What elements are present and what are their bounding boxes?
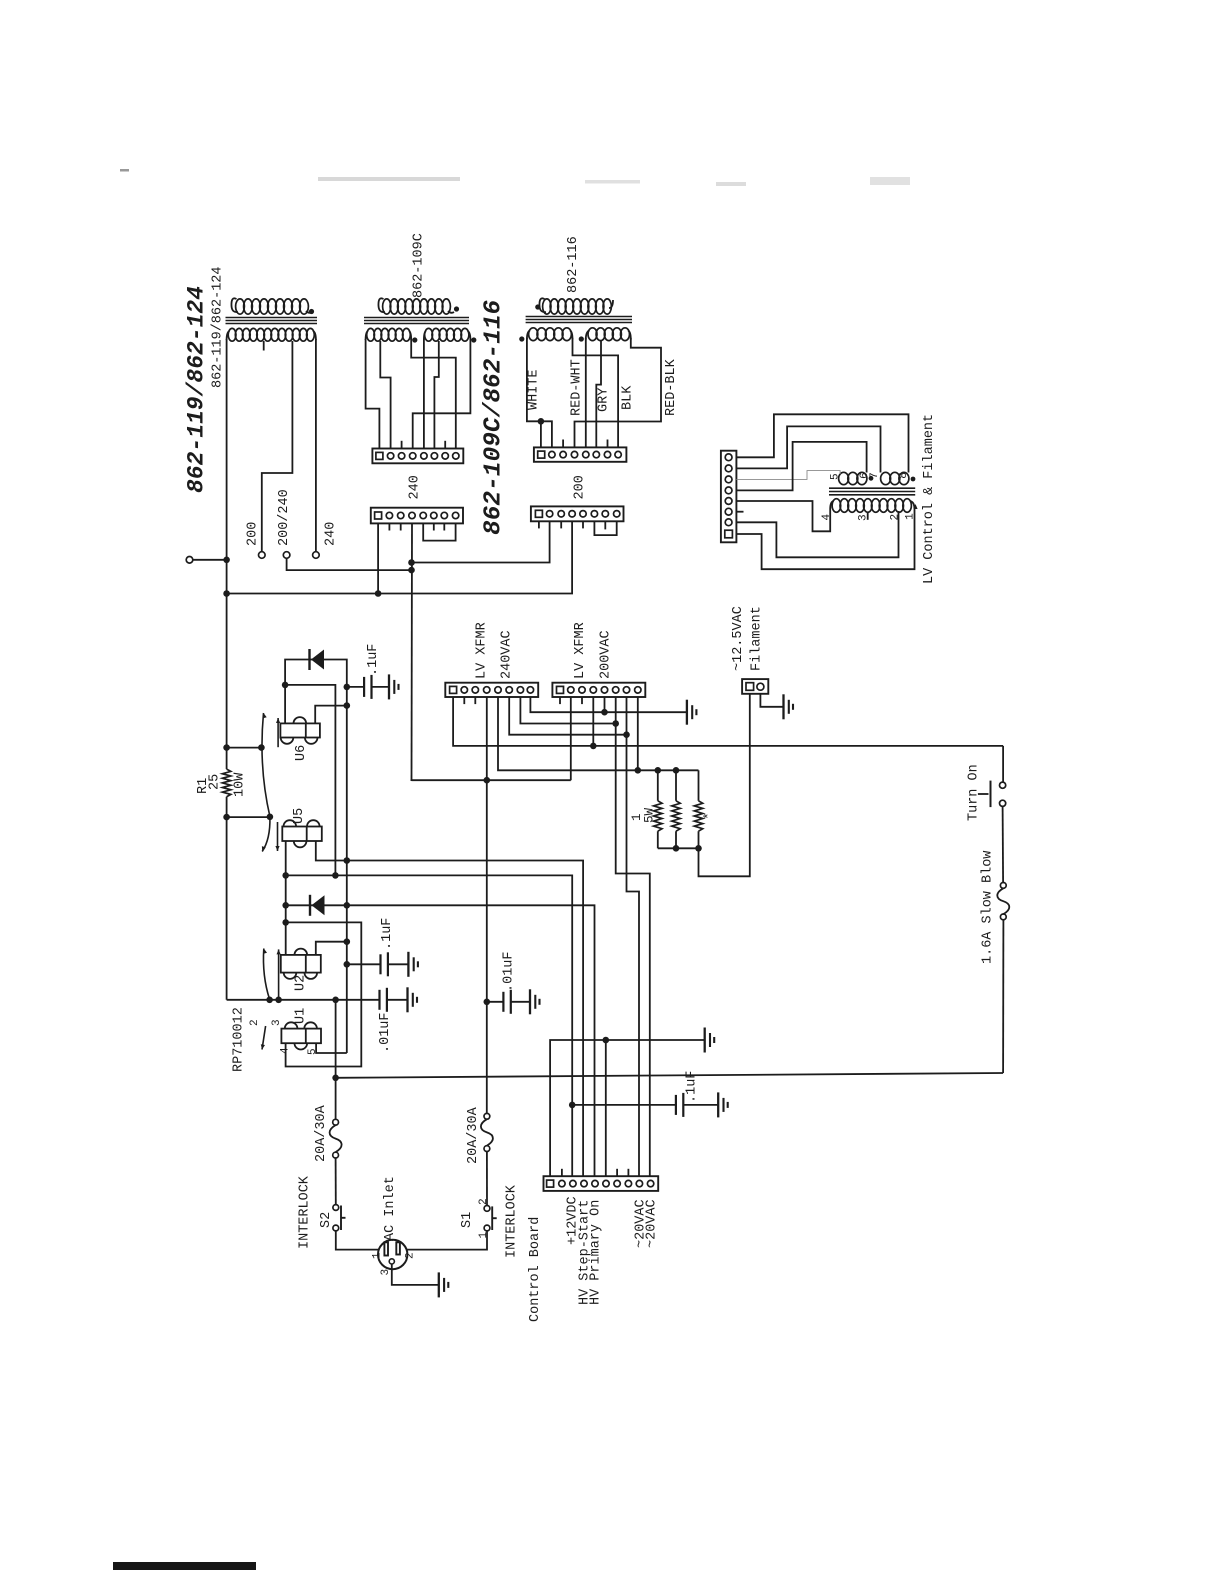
wire 200VAC pin8 to row F xyxy=(637,697,639,770)
240VAC stub pin2 xyxy=(463,697,465,704)
junction rowQ/bypass xyxy=(332,872,339,879)
row .01uF U1 xyxy=(227,999,380,1001)
svg-text:4: 4 xyxy=(821,514,833,521)
wire S2 chain vertical xyxy=(335,1000,337,1122)
wire LVctl conn pin1 to coilB right xyxy=(736,414,908,472)
junction left rail row594 xyxy=(223,590,230,597)
wire inlet pin3 to ground xyxy=(392,1264,439,1285)
svg-text:2: 2 xyxy=(249,1019,261,1026)
wire S1 to fuse F1 xyxy=(486,1152,488,1206)
svg-text:Filament: Filament xyxy=(749,606,764,671)
J3B stub pin5 xyxy=(582,521,584,528)
svg-text:U2: U2 xyxy=(293,975,308,991)
transformer T2 secondary coil xyxy=(378,298,385,312)
ground filament xyxy=(782,694,784,719)
LV ctl coil A dot xyxy=(869,476,874,481)
wire 200VAC pin4 xyxy=(592,697,594,746)
junction U6-left/row685 xyxy=(282,682,289,689)
wire filament pin2 to ground xyxy=(760,694,783,707)
ground AC inlet xyxy=(438,1272,440,1297)
svg-text:RED-WHT: RED-WHT xyxy=(569,359,584,416)
svg-text:.01uF: .01uF xyxy=(378,1012,393,1053)
U1 contact pointer xyxy=(278,949,280,999)
svg-text:20A/30A: 20A/30A xyxy=(314,1104,329,1162)
junction row734/200VAC pin7 xyxy=(623,731,630,738)
T3 connector stub pin7 xyxy=(607,440,609,448)
LVctl conn pin6 stub xyxy=(736,511,743,513)
wire left rail (559.8-747.6) xyxy=(226,560,228,748)
row D2 to control board pin5 xyxy=(286,905,595,1176)
LV ctl secondary coil A (pins 5-6) xyxy=(839,472,849,484)
fuse 1.6A Slow Blow xyxy=(1000,883,1006,889)
svg-text:U5: U5 xyxy=(292,808,307,824)
CB stub pin7 xyxy=(616,1169,618,1176)
wire LVctl conn pin8(sq) to primary pin1 xyxy=(736,509,914,569)
wire 240VAC pin7 to 200VAC pin6 row xyxy=(520,697,615,724)
transformer T2 core xyxy=(364,317,469,319)
svg-text:.1uF: .1uF xyxy=(380,918,395,950)
svg-text:862-109C: 862-109C xyxy=(411,233,426,298)
wire 240VAC pin4 long vertical to fuse F1 xyxy=(486,697,488,1113)
wire T2 primary-right right-end to pin4 xyxy=(413,339,471,449)
RP contact blade xyxy=(262,1026,266,1050)
relay U2 xyxy=(281,955,321,973)
wire T2 primary-right tap to pin6 xyxy=(434,341,438,449)
resistor (R c *) xyxy=(698,770,700,801)
cap .1uF control board xyxy=(572,1104,676,1106)
J2B bracket pins5-8 xyxy=(423,523,455,540)
wire vertical 346.8 (D1 right chain) xyxy=(346,687,348,1053)
wire T2 primary-left left-end to pin1 xyxy=(366,339,380,449)
switch INTERLOCK S1 xyxy=(484,1206,490,1212)
transformer T2 primary coil right xyxy=(425,328,433,341)
wire row E xyxy=(412,779,571,782)
wire U5 right pin to row P xyxy=(316,841,583,1176)
junction U2-right/chain xyxy=(344,938,351,945)
junction rowF/resistor1 xyxy=(655,767,662,774)
wire LVctl conn pin2 to coilB left xyxy=(736,426,880,472)
wire T2 primary-left tap to pin2 xyxy=(380,341,390,449)
wire T2 primary-right left-end to pin5 xyxy=(423,339,425,449)
AC inlet xyxy=(378,1240,407,1269)
J3B stub pin3 xyxy=(560,521,562,528)
junction pin4/row562 xyxy=(408,559,415,566)
wire 240VAC pin5 to row F xyxy=(498,697,699,770)
T2 primary left dot xyxy=(412,337,417,342)
240VAC stub pin3 xyxy=(474,697,476,704)
svg-text:2: 2 xyxy=(890,514,902,521)
control board connector xyxy=(544,1176,659,1191)
T3 primary left dot xyxy=(519,336,524,341)
U6 contact pointer xyxy=(277,718,279,747)
svg-text:1: 1 xyxy=(371,1252,383,1259)
svg-text:240VAC: 240VAC xyxy=(499,630,514,679)
svg-text:U1: U1 xyxy=(293,1008,308,1024)
svg-text:INTERLOCK: INTERLOCK xyxy=(297,1175,312,1249)
svg-text:862-109C/862-116: 862-109C/862-116 xyxy=(481,299,508,535)
junction row1040/CB pin6 xyxy=(603,1037,610,1044)
200VAC stub pin3 xyxy=(581,697,583,704)
svg-text:8: 8 xyxy=(898,472,910,479)
wire U1 pin5 jog to chain xyxy=(316,1043,347,1053)
T3 primary right dot xyxy=(579,336,584,341)
junction left rail / input xyxy=(223,557,230,564)
wire row562 to conn-200 pin2 xyxy=(412,521,550,562)
junction WHITE/pin1 xyxy=(538,418,545,425)
junction D2-left xyxy=(282,902,289,909)
junction D1-right/cap xyxy=(344,684,351,691)
svg-text:RED-BLK: RED-BLK xyxy=(664,358,679,416)
T1 primary center-tap stub xyxy=(263,341,265,351)
svg-text:5: 5 xyxy=(307,1048,319,1055)
connector LV XFMR 200VAC xyxy=(552,683,645,697)
fuse 20A/30A left xyxy=(333,1119,339,1125)
wire J2B pin1 to row594 xyxy=(377,523,379,593)
svg-text:5: 5 xyxy=(829,473,841,480)
junction rowF/resistor2 xyxy=(673,767,680,774)
U5 contact pointer xyxy=(277,822,279,851)
row Q to control board pin3 xyxy=(286,875,573,1176)
wire inlet pin2 to S1 xyxy=(407,1231,487,1250)
junction rowP/chain346 xyxy=(344,857,351,864)
svg-text:3: 3 xyxy=(380,1269,392,1276)
svg-text:10W: 10W xyxy=(233,772,248,797)
svg-text:GRY: GRY xyxy=(596,388,611,412)
wire T1 tap to 200 terminal xyxy=(262,341,293,552)
junction D2-right/chain xyxy=(344,902,351,909)
wire row 594 to conn-200 pin4 xyxy=(227,521,572,593)
J2B stub pin6 xyxy=(433,523,435,530)
transformer T1 primary coil xyxy=(228,328,236,341)
wire U6 right pin xyxy=(315,706,347,724)
LV ctl secondary coil B (pins 7-8) xyxy=(881,472,891,484)
junction row705/chain xyxy=(344,702,351,709)
LV ctl core xyxy=(829,487,915,489)
svg-text:BLK: BLK xyxy=(620,385,635,410)
wire left rail lower xyxy=(226,817,228,1000)
junction row594 / conn240 pin1 xyxy=(375,590,382,597)
wire 240VAC pin8 to ground row xyxy=(530,697,687,712)
svg-text:LV XFMR: LV XFMR xyxy=(474,622,489,679)
wire T2 primary-left right-end to pin8 xyxy=(411,339,456,449)
relay arc1 (U6/U5 armature) xyxy=(262,713,270,817)
relay U6 xyxy=(280,723,320,737)
svg-text:Turn On: Turn On xyxy=(967,764,982,821)
svg-text:200VAC: 200VAC xyxy=(598,630,613,679)
200VAC stub pin1 xyxy=(559,697,561,704)
T3 secondary dot (left) xyxy=(535,304,540,309)
junction row723/200VAC pin6 xyxy=(612,720,619,727)
junction U2-left/row922 xyxy=(282,919,289,926)
CB stub pin2 xyxy=(561,1169,563,1176)
svg-text:862-119/862-124: 862-119/862-124 xyxy=(184,286,210,493)
wire J2B pin4 down to row E xyxy=(411,523,414,781)
svg-text:S2: S2 xyxy=(319,1212,334,1228)
svg-text:LV XFMR: LV XFMR xyxy=(573,622,588,679)
svg-text:*: * xyxy=(701,812,716,820)
wire input terminal to left rail xyxy=(193,559,227,561)
svg-text:200: 200 xyxy=(245,522,260,546)
svg-text:RP710012: RP710012 xyxy=(232,1007,247,1072)
svg-text:S1: S1 xyxy=(460,1212,475,1228)
terminal 200 xyxy=(259,552,266,559)
transformer T3 secondary coil xyxy=(539,298,546,312)
wire row685 to bypass vertical xyxy=(285,685,335,876)
wire LVctl conn pin4 to coilA right xyxy=(736,442,866,491)
J2B stub pin2 xyxy=(388,523,390,530)
cap .1uF U6 xyxy=(347,686,364,688)
wire R1 top to arc1 xyxy=(227,747,262,749)
transformer T3 primary coil right xyxy=(588,328,597,341)
junction cap/240VAC pin4 xyxy=(484,999,491,1006)
LV ctl primary coil xyxy=(832,499,841,513)
junction rowQ-cap .1uF xyxy=(569,1102,576,1109)
transformer T1 core xyxy=(226,317,318,319)
svg-text:20A/30A: 20A/30A xyxy=(466,1106,481,1164)
resistor 1ohm 5W (R a) xyxy=(657,770,659,801)
J2B stub pin3 xyxy=(400,523,402,530)
svg-text:~12.5VAC: ~12.5VAC xyxy=(731,606,746,671)
wire S2 to AC inlet xyxy=(336,1231,378,1250)
CB stub pin8 xyxy=(627,1169,629,1176)
scan artifacts xyxy=(318,177,460,181)
svg-text:3: 3 xyxy=(271,1019,283,1026)
svg-text:.01uF: .01uF xyxy=(501,951,516,992)
svg-text:2: 2 xyxy=(478,1198,490,1205)
resistor (R b) xyxy=(675,770,677,801)
svg-text:INTERLOCK: INTERLOCK xyxy=(504,1184,519,1258)
wire 240VAC pin1 row D to TurnOn rail xyxy=(453,697,1003,746)
relay arc2 xyxy=(262,817,270,852)
svg-text:HV Primary On: HV Primary On xyxy=(589,1200,604,1305)
connector J2A (transformer 862-109C) xyxy=(372,449,463,464)
wire T1 left end down (left rail top) xyxy=(226,339,228,560)
diode D2 xyxy=(309,895,311,916)
junction pin4/row570 xyxy=(408,567,415,574)
wire U2 right pin xyxy=(316,942,347,955)
wire LVctl conn pin5 to primary pin4 xyxy=(736,501,830,531)
svg-text:U6: U6 xyxy=(294,745,309,761)
svg-text:862-116: 862-116 xyxy=(566,236,581,293)
relay U5 xyxy=(282,827,322,842)
svg-text:200: 200 xyxy=(572,475,587,499)
wire fuse to S2 xyxy=(335,1158,337,1205)
wire 200VAC pin5 xyxy=(604,697,606,712)
wire 200VAC pin2 down to row E end xyxy=(570,697,572,780)
wire 200VAC pin7 to control board pin9 xyxy=(627,697,640,1176)
cap .01uF on S1 chain xyxy=(487,1001,504,1003)
T2 primary right dot xyxy=(471,337,476,342)
wire R1 bottom to arc joint xyxy=(227,816,270,818)
wire rail down from row D xyxy=(1002,746,1004,782)
terminal 240 xyxy=(313,552,320,559)
resistor R1 25 10W xyxy=(223,744,230,751)
transformer T3 core xyxy=(526,316,632,318)
T2 connector stub pin7 xyxy=(444,441,446,449)
svg-text:240: 240 xyxy=(407,475,422,499)
wire 200/240 terminal to junction xyxy=(287,558,412,570)
switch INTERLOCK S2 xyxy=(333,1205,339,1211)
cap .1uF U2 xyxy=(344,961,351,968)
wire CB pin1 to ground row1040 xyxy=(550,1040,705,1176)
wire U5 left pin down xyxy=(285,841,287,955)
wire T3 RED-BLK: right end loop to pin4 xyxy=(575,338,662,447)
J3B stub pin7 xyxy=(604,521,606,529)
svg-text:4: 4 xyxy=(279,1047,291,1054)
wire T3 RED-WHT: left-coil right end to pin8 xyxy=(573,338,619,447)
junction resistor2 bottom xyxy=(673,845,680,852)
wire filament pin1 down to resistor bottom xyxy=(699,694,750,877)
svg-text:5W: 5W xyxy=(643,807,657,823)
connector J3A (transformer 862-116) xyxy=(534,447,627,461)
T3 connector stub pin3 xyxy=(562,440,564,448)
J3B stub pin1 xyxy=(538,521,540,528)
svg-text:862-119/862-124: 862-119/862-124 xyxy=(210,266,225,388)
svg-text:.1uF: .1uF xyxy=(685,1071,700,1103)
transformer T3 primary coil left xyxy=(529,328,538,341)
connector filament (2-pin) xyxy=(742,679,768,694)
svg-text:Control Board: Control Board xyxy=(528,1217,543,1322)
fuse 20A/30A right xyxy=(484,1113,490,1119)
wire CB pin6 xyxy=(605,1040,607,1176)
diode D1 xyxy=(285,660,347,724)
svg-text:.1uF: .1uF xyxy=(366,644,381,676)
row 1078 to fuse rail xyxy=(336,1073,1004,1078)
junction rowE/240VAC pin4 xyxy=(484,777,491,784)
wire pin1 branch xyxy=(540,421,542,447)
wire 240VAC pin6 to 200VAC pin7 row xyxy=(509,697,626,735)
junction chain/row1078 xyxy=(332,1075,339,1082)
transformer T2 primary coil left xyxy=(367,328,375,341)
svg-text:1: 1 xyxy=(478,1232,490,1239)
transformer T1 secondary coil xyxy=(231,298,238,312)
wire 200VAC pin6 to control board pin10 xyxy=(616,697,650,1176)
svg-text:AC Inlet: AC Inlet xyxy=(383,1176,398,1241)
svg-text:~20VAC: ~20VAC xyxy=(645,1199,660,1248)
wire row922 loop to U1 pin4 xyxy=(286,922,362,1066)
relay U1 xyxy=(281,1029,321,1044)
switch Turn On xyxy=(1000,782,1006,788)
T2 connector stub pin3 xyxy=(401,441,403,449)
junction U5-left/rowQ xyxy=(282,872,289,879)
LV ctl arrow at primary pin1 end xyxy=(913,504,917,509)
svg-text:LV Control & Filament: LV Control & Filament xyxy=(922,414,937,584)
svg-text:1.6A Slow Blow: 1.6A Slow Blow xyxy=(981,851,996,964)
J2B stub pin7 xyxy=(443,523,445,530)
wire T3 WHITE: left end to pins1,2 xyxy=(527,338,552,447)
cap .01uF U1 xyxy=(378,990,380,1010)
terminal 200/240 xyxy=(283,552,290,559)
connector LV XFMR 240VAC xyxy=(445,683,538,697)
ground row712 xyxy=(686,700,688,725)
wire T3 right-coil left end to pin5 xyxy=(585,338,587,447)
junction row712/200VAC pin5 xyxy=(601,709,608,716)
junction resistor3 bottom xyxy=(695,845,702,852)
svg-text:240: 240 xyxy=(323,522,338,546)
wire LVctl conn pin7 to primary tap2 xyxy=(736,511,898,557)
svg-text:200/240: 200/240 xyxy=(277,489,292,546)
LV ctl tap3 stub xyxy=(867,513,869,520)
LV ctl coil B dot xyxy=(911,477,916,482)
junction rowD/200VAC pin4 xyxy=(590,743,597,750)
wire LVctl conn pin3 to coilA left (faint) xyxy=(736,471,840,480)
wire T3 GRY tap to pin6 xyxy=(596,341,601,447)
junction rowF/200VAC pin8 xyxy=(635,767,642,774)
U2 contact arc xyxy=(263,949,269,1000)
svg-text:25: 25 xyxy=(207,774,222,790)
wire fuse down to row1078 xyxy=(1002,920,1004,1073)
wire T1 right end to 240 terminal xyxy=(315,339,317,552)
resistor bottom row xyxy=(658,847,699,849)
LV control connector (vertical 8-pin) xyxy=(721,451,737,543)
svg-text:2: 2 xyxy=(405,1252,417,1259)
ground row1040 xyxy=(704,1028,706,1053)
input terminal (open circle) xyxy=(186,557,193,564)
svg-text:7: 7 xyxy=(869,472,881,479)
svg-text:WHITE: WHITE xyxy=(526,369,541,410)
J3B bracket pins6-8 xyxy=(594,521,616,535)
wire switch to fuse xyxy=(1002,806,1005,882)
